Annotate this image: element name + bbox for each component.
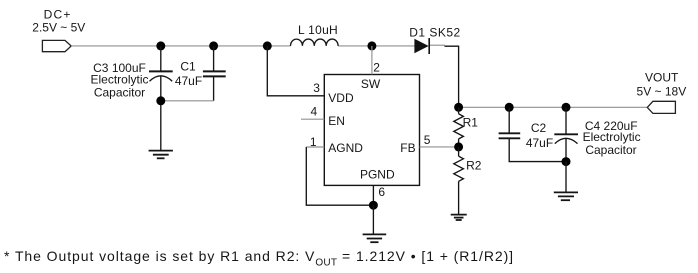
node C4 top [562,103,571,112]
diode D1 [415,38,430,54]
node C3/C1 bottom [156,96,165,105]
wire output rail [459,106,648,108]
svg-text:2: 2 [373,61,380,75]
svg-text:L 10uH: L 10uH [298,23,338,37]
node C2/C4 bottom [562,157,571,166]
wire diode to output node [445,46,459,107]
wire PGND node to ground [372,205,374,234]
node VDD branch [263,41,272,50]
svg-text:EN: EN [328,114,345,128]
svg-text:R1: R1 [463,115,479,129]
pin 2 stub SW [371,46,373,75]
node C1 top [209,41,218,50]
svg-text:47uF: 47uF [175,74,202,88]
pin 1 stub AGND [306,146,324,148]
ground under C3 [149,151,173,159]
ground under C4 [554,192,578,200]
svg-text:VOUT: VOUT [645,71,679,85]
connector VOUT output [647,101,675,113]
capacitor C1 [203,46,226,101]
wire inductor to SW node [338,45,415,47]
node diode/R1 [454,103,463,112]
svg-text:C2: C2 [531,121,547,135]
svg-text:D1 SK52: D1 SK52 [409,25,461,39]
svg-text:Capacitor: Capacitor [585,143,636,157]
capacitor C4 [554,107,578,161]
wire VDD branch to pin 3 [267,46,324,96]
svg-text:PGND: PGND [360,168,395,182]
svg-text:VDD: VDD [328,91,354,105]
node C3 top [156,41,165,50]
svg-text:3: 3 [313,81,320,95]
svg-text:4: 4 [311,105,318,119]
svg-text:6: 6 [378,185,385,199]
capacitor C3 [149,46,173,150]
pin 4 stub EN (unconnected) [301,118,324,120]
svg-text:SW: SW [361,77,381,91]
pin 6 stub PGND [372,185,374,205]
wire C4 bottom to ground [565,162,567,193]
svg-text:5V ~ 18V: 5V ~ 18V [637,84,687,98]
connector DC+ input [42,40,71,51]
svg-text:2.5V ~ 5V: 2.5V ~ 5V [32,20,85,34]
pin 5 wire FB to divider [420,146,456,148]
svg-text:Capacitor: Capacitor [94,85,145,99]
wire diode cathode stub [430,44,445,46]
node AGND/PGND [369,201,378,210]
capacitor C2 [499,107,566,161]
resistor R1 [454,107,464,147]
node SW [367,41,376,50]
svg-text:1: 1 [310,135,317,149]
resistor R2 [454,147,464,215]
inductor L [291,39,339,46]
svg-text:5: 5 [424,133,431,147]
ground under R2 (small) [451,215,467,220]
wire input rail [71,45,290,47]
ground under PGND [363,234,387,242]
svg-text:Electrolytic: Electrolytic [583,130,641,144]
svg-text:47uF: 47uF [526,136,553,150]
svg-text:R2: R2 [466,158,482,172]
IC U1 body [324,75,419,186]
wire C1 bottom to C3 node [161,100,214,102]
svg-text:AGND: AGND [328,141,363,155]
svg-text:FB: FB [400,141,415,155]
node C2 top [505,103,514,112]
svg-text:C1: C1 [180,60,196,74]
node FB [454,142,463,151]
wire AGND to PGND node [306,147,373,205]
